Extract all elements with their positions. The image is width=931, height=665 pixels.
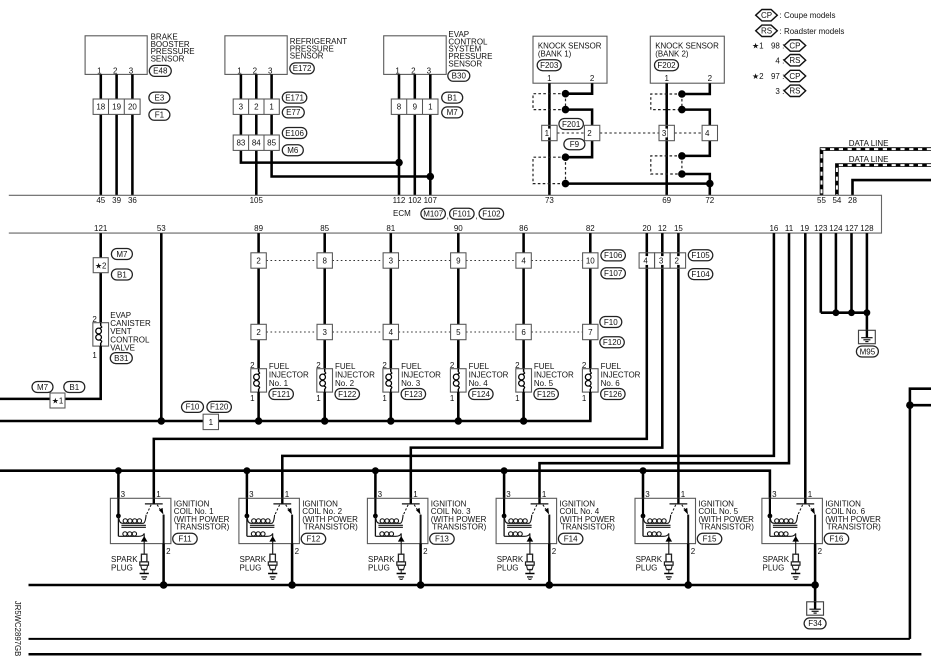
svg-text:2: 2 [450,361,455,370]
svg-text:E48: E48 [153,67,168,76]
connector E3/F1 pins 18 19 20 [93,92,170,120]
svg-text:2: 2 [582,361,587,370]
splice star2 box [93,249,132,281]
svg-text:SENSOR: SENSOR [290,52,324,61]
svg-text:54: 54 [832,196,841,205]
junction node ECM pin 72 wire [706,180,714,188]
svg-text:1: 1 [97,67,102,76]
svg-text:2: 2 [256,328,261,337]
svg-text:123: 123 [814,224,828,233]
svg-text:55: 55 [817,196,826,205]
svg-text:1: 1 [285,490,290,499]
shield box knock2 upper [651,94,682,110]
wire ECM pin 107 [429,74,432,195]
svg-text:No. 2: No. 2 [335,379,355,388]
junction coil 1 pin2 bus [160,581,168,589]
wire ECM pin 11 to ignition coil No.4 [540,233,790,504]
svg-text:1: 1 [547,74,552,83]
svg-text:1: 1 [209,418,214,427]
svg-text:F124: F124 [472,390,491,399]
svg-text:3: 3 [268,67,273,76]
svg-text:1: 1 [515,394,520,403]
svg-text:3: 3 [121,490,126,499]
svg-text:3: 3 [389,256,394,265]
svg-text:M107: M107 [423,210,444,219]
svg-text:124: 124 [829,224,843,233]
junction injector 2 bus [321,417,328,424]
svg-text:B30: B30 [452,72,467,81]
svg-text:E77: E77 [286,108,301,117]
svg-text:F15: F15 [703,535,717,544]
svg-text:CP: CP [789,41,800,50]
junction coil 1 bus [115,467,122,474]
legend star2 3 RS [775,85,805,96]
junction injector 3 bus [387,417,394,424]
svg-text:E106: E106 [285,129,304,138]
svg-text:69: 69 [662,196,671,205]
svg-text:RS: RS [789,87,800,96]
svg-text:2: 2 [256,256,261,265]
svg-text:★1: ★1 [52,397,63,406]
svg-text:15: 15 [674,224,683,233]
svg-text:F14: F14 [564,535,578,544]
connector E106/M6 pins 83 84 85 [233,128,307,156]
connector F201/F9 boxes 1 2 3 4 with twisted line [542,119,718,150]
svg-text:F125: F125 [537,390,556,399]
svg-text:82: 82 [586,224,595,233]
shield box knock1 lower [533,157,566,183]
connector B1/M7 pins 8 9 1 [391,92,462,118]
svg-text:TRANSISTOR): TRANSISTOR) [304,523,358,532]
svg-text:105: 105 [250,196,264,205]
svg-text:F13: F13 [435,535,449,544]
svg-text:F106: F106 [604,251,623,260]
svg-text:83: 83 [236,139,245,148]
wire coil 1 pin 3 [117,471,120,516]
ECM top pin numbers [96,196,857,205]
connector trio F105/F104 pins 4 3 2 [639,250,713,280]
wire bottom rail from right edge branch [29,638,910,640]
ignition coil No. 5 with power transistor F15 [635,490,696,556]
svg-text:45: 45 [96,196,105,205]
svg-text:JR5WC2897GB: JR5WC2897GB [13,601,22,656]
knock sensor bank 1 F203 [533,36,607,83]
wire ECM pin 90 to fuel injector No. 4 [457,233,460,369]
wire knock1 pin2 shield lower to ECM pin 72 line [566,141,710,184]
connector E171/E77 pins 3 2 1 [233,92,307,118]
svg-text:,: , [475,212,477,221]
svg-text:28: 28 [848,196,857,205]
svg-text:39: 39 [112,196,121,205]
wire coil 4 pin 3 [503,471,506,516]
svg-text:2: 2 [166,547,171,556]
wire ECM pin 82 to fuel injector No. 6 [589,233,592,369]
wire ECM pin 69 [665,83,668,195]
svg-text:1: 1 [92,351,97,360]
wire coil 5 pin 3 [642,471,645,516]
svg-text:2: 2 [295,547,300,556]
junction coil 5 pin2 bus [684,581,692,589]
svg-text:M7: M7 [116,250,128,259]
svg-text:CP: CP [761,11,772,20]
svg-text:★1: ★1 [752,42,764,51]
svg-text:F122: F122 [338,390,357,399]
svg-text:F102: F102 [482,210,501,219]
svg-text:9: 9 [413,103,418,112]
wire coil bus to ground F34 [814,585,817,602]
svg-text:36: 36 [128,196,137,205]
wire ECM pin 102 [414,74,417,195]
connector row F106/F107 [251,250,626,279]
svg-text:★2: ★2 [752,72,764,81]
svg-text:(BANK 2): (BANK 2) [655,50,689,59]
svg-text:2: 2 [552,547,557,556]
svg-text:B1: B1 [447,93,457,102]
svg-text:M7: M7 [37,383,49,392]
svg-text:3: 3 [129,67,134,76]
shield box knock2 lower [651,156,682,174]
svg-text:1: 1 [382,394,387,403]
junction ECM pin53/bus [158,417,165,424]
junction coil 4 pin2 bus [546,581,554,589]
wire ECM pin 112 [398,74,401,195]
wire ECM pin 45 [100,74,103,195]
svg-text:2: 2 [316,361,321,370]
svg-text:RS: RS [789,56,800,65]
svg-text:PLUG: PLUG [497,563,519,572]
svg-text:2: 2 [590,74,595,83]
ignition coil No. 2 with power transistor F12 [239,490,300,556]
spark plug 5 [636,554,674,579]
svg-text:B1: B1 [117,270,127,279]
wire valve to splice star1 and left edge [0,346,101,399]
ignition coil No. 6 with power transistor F16 [762,490,823,556]
svg-text:6: 6 [521,328,526,337]
svg-text:86: 86 [519,224,528,233]
svg-text:1: 1 [545,129,550,138]
svg-text:F120: F120 [210,403,229,412]
junction shield knock2 upper [678,90,686,113]
brake booster pressure sensor E48 [85,33,195,77]
data line 1 (ECM pin 55) [822,139,931,195]
svg-text:3: 3 [772,490,777,499]
wire coil 3 pin 3 [374,471,377,516]
svg-text:PLUG: PLUG [763,563,785,572]
junction coil 2 pin2 bus [288,581,296,589]
junction shield knock1 upper [562,90,570,114]
svg-text:3: 3 [645,490,650,499]
junction coil 3 bus [372,467,379,474]
ignition coil No. 1 with power transistor F11 [110,490,171,556]
junction coil 2 bus [243,467,250,474]
wire coil 2 pin 2 to spark bus [291,544,294,585]
svg-text:F201: F201 [562,120,581,129]
knock sensor bank 2 F202 [650,36,724,83]
wire ECM pin 36 [131,74,134,195]
svg-text:4: 4 [643,256,648,265]
ECM bottom pin numbers [94,224,874,233]
wire knock2 pin2 shield lower [682,141,710,196]
svg-text:F126: F126 [604,390,623,399]
svg-text:4: 4 [705,129,710,138]
junction coil 6 pin2 bus [811,581,819,589]
wire ECM pin 20 to ignition coil No.1 [154,233,647,504]
legend star1 98 CP [752,40,806,51]
junction injector 5 bus [520,417,527,424]
svg-text:85: 85 [267,139,276,148]
svg-text:1: 1 [156,490,161,499]
fuel injector No. 1 F121 [250,361,309,421]
svg-text:2: 2 [113,67,118,76]
svg-text:97 :: 97 : [771,72,784,81]
svg-text:2: 2 [253,67,258,76]
svg-text:No. 6: No. 6 [601,379,621,388]
svg-text:F11: F11 [178,535,192,544]
svg-text:PLUG: PLUG [636,563,658,572]
wire ECM pin 73 [548,83,551,195]
svg-text:12: 12 [658,224,667,233]
svg-text:2: 2 [708,74,713,83]
svg-text:No. 3: No. 3 [401,379,421,388]
svg-text:5: 5 [456,328,461,337]
svg-text:TRANSISTOR): TRANSISTOR) [700,523,754,532]
splice star1 box [32,382,85,409]
svg-text:53: 53 [157,224,166,233]
svg-text:1: 1 [450,394,455,403]
svg-text:3 :: 3 : [775,87,784,96]
EVAP canister vent control valve B31 solenoid [92,311,151,364]
svg-text:3: 3 [239,103,244,112]
svg-text:89: 89 [254,224,263,233]
wire ECM pin 85 to fuel injector No. 2 [323,233,326,369]
svg-text:1: 1 [808,490,813,499]
svg-text:8: 8 [397,103,402,112]
svg-text:(BANK 1): (BANK 1) [538,50,572,59]
wire ECM pin 12 to ignition coil No.3 [411,233,663,504]
svg-text:F34: F34 [808,619,822,628]
svg-text:F105: F105 [691,251,710,260]
svg-text:TRANSISTOR): TRANSISTOR) [561,523,615,532]
svg-text:20: 20 [642,224,651,233]
wire coil 1 pin 2 to spark bus [162,544,165,585]
svg-text:TRANSISTOR): TRANSISTOR) [432,523,486,532]
svg-text:19: 19 [112,103,121,112]
junction node pin107/refrigerant [427,173,435,181]
svg-text:F9: F9 [570,140,580,149]
svg-text:DATA LINE: DATA LINE [849,139,889,148]
fuel injector No. 6 F126 [582,361,641,421]
svg-text:F101: F101 [453,210,472,219]
svg-text:F10: F10 [604,318,618,327]
junction injector 4 bus [455,417,462,424]
wire ECM pin 16 to ignition coil No.2 [282,233,774,504]
svg-text:18: 18 [96,103,105,112]
svg-text:73: 73 [545,196,554,205]
ignition coil No. 3 with power transistor F13 [367,490,428,556]
wire bottom rail 2 [29,653,922,656]
svg-text:F121: F121 [272,390,291,399]
spark plug 1 [111,554,149,579]
wire ECM pin 19 to ignition coil No.6 [804,233,807,504]
svg-text:F202: F202 [657,61,676,70]
junction grounds [833,309,871,316]
junction right edge [906,401,914,409]
svg-text:20: 20 [128,103,137,112]
wire coil 2 pin 3 [246,471,249,516]
spark/coil ground bus wire [29,584,816,587]
svg-text:B31: B31 [114,354,129,363]
svg-text:81: 81 [386,224,395,233]
svg-text:PLUG: PLUG [368,563,390,572]
svg-text:4 :: 4 : [775,56,784,65]
svg-text:F16: F16 [830,535,844,544]
ECM [9,195,882,233]
injector supply bus wire [0,392,590,421]
svg-text:9: 9 [456,256,461,265]
svg-text:No. 4: No. 4 [469,379,489,388]
wire ECM pin 39 [115,74,118,195]
svg-text:F12: F12 [307,535,321,544]
svg-text:F1: F1 [155,111,165,120]
fuel injector No. 5 F125 [515,361,574,421]
svg-text:TRANSISTOR): TRANSISTOR) [175,523,229,532]
svg-text:No. 1: No. 1 [269,379,289,388]
junction coil 3 pin2 bus [417,581,425,589]
EVAP control system pressure sensor B30 [384,30,493,81]
svg-text:1: 1 [582,394,587,403]
junction shield knock2 lower [678,152,686,178]
junction coil 4 bus [501,467,508,474]
svg-text:4: 4 [521,256,526,265]
svg-text:1: 1 [681,490,686,499]
spark plug 6 [763,554,801,579]
svg-text:1: 1 [428,103,433,112]
svg-text:1: 1 [237,67,242,76]
svg-text:CP: CP [789,72,800,81]
wire ECM pin 28 [853,180,931,195]
wires ECM pins 123 124 127 128 to ground M95 [821,233,867,330]
junction coil 5 bus [640,467,647,474]
wire coil 6 pin 2 to spark bus [814,544,817,585]
svg-text:1: 1 [395,67,400,76]
legend star1 4 RS [775,55,805,66]
drawing code JR5WC2897GB [13,601,22,656]
spark plug 3 [368,554,406,579]
svg-text:No. 5: No. 5 [534,379,554,388]
svg-text:M6: M6 [287,146,299,155]
svg-text:M95: M95 [860,347,876,356]
svg-text:E172: E172 [293,64,312,73]
svg-text:2: 2 [691,547,696,556]
svg-text:F104: F104 [691,270,710,279]
svg-text:1: 1 [269,103,274,112]
svg-text:: Coupe models: : Coupe models [780,11,836,20]
svg-text:: Roadster models: : Roadster models [780,27,845,36]
svg-text:RS: RS [761,27,772,36]
svg-text:19: 19 [800,224,809,233]
svg-text:2: 2 [250,361,255,370]
svg-text:98 :: 98 : [771,42,784,51]
svg-text:2: 2 [515,361,520,370]
svg-text:F123: F123 [404,390,423,399]
wire coil 5 pin 2 to spark bus [687,544,690,585]
ground F34 [804,602,826,629]
wire right edge branch upper [910,389,931,639]
ground M95 [856,330,878,357]
svg-text:102: 102 [408,196,422,205]
svg-text:3: 3 [378,490,383,499]
svg-text:E171: E171 [285,93,304,102]
svg-text:F10: F10 [186,403,200,412]
svg-text:2: 2 [818,547,823,556]
shield box knock1 upper [533,94,566,110]
svg-text:2: 2 [254,103,259,112]
svg-text:2: 2 [423,547,428,556]
wire ECM pin 89 to fuel injector No. 1 [257,233,260,369]
wire refrigerant pin 1 to EVAP sensor pin 112 node [241,74,399,162]
svg-text:2: 2 [382,361,387,370]
legend star2 97 CP [752,70,806,81]
svg-text:PLUG: PLUG [240,563,262,572]
svg-text:127: 127 [845,224,859,233]
svg-text:DATA LINE: DATA LINE [849,155,889,164]
wire coil 3 pin 2 to spark bus [419,544,422,585]
wire ECM pin 121 to EVAP canister vent control valve [99,233,102,323]
wire ECM pin 15 to ignition coil No.5 [677,233,680,504]
svg-text:2: 2 [411,67,416,76]
svg-text:1: 1 [316,394,321,403]
svg-text:121: 121 [94,224,108,233]
svg-text:11: 11 [785,224,794,233]
fuel injector No. 4 F124 [450,361,509,421]
svg-text:3: 3 [662,129,667,138]
wire knock1 pin2 shield upper [566,83,593,125]
svg-text:16: 16 [769,224,778,233]
svg-text:4: 4 [389,328,394,337]
fuel injector No. 2 F122 [316,361,375,421]
spark plug 2 [240,554,278,579]
svg-text:1: 1 [413,490,418,499]
svg-text:3: 3 [249,490,254,499]
svg-text:SENSOR: SENSOR [151,55,185,64]
connector 1 F10/F120 on bus [182,401,232,429]
wire coil 4 pin 2 to spark bus [548,544,551,585]
svg-text:1: 1 [664,74,669,83]
svg-text:72: 72 [705,196,714,205]
svg-text:E3: E3 [155,93,165,102]
svg-text:8: 8 [322,256,327,265]
svg-text:ECM: ECM [393,209,411,218]
ignition coil supply bus wire [0,471,770,516]
svg-text:3: 3 [427,67,432,76]
wire ECM pin 86 to fuel injector No. 5 [522,233,525,369]
svg-text:SENSOR: SENSOR [448,59,482,68]
data line 2 (ECM pin 54) [837,155,931,195]
svg-text:PLUG: PLUG [111,563,133,572]
wire ECM pin 105 [255,74,258,195]
junction injector 1 bus [255,417,262,424]
svg-text:107: 107 [424,196,438,205]
svg-text:112: 112 [393,196,406,205]
ignition coil No. 4 with power transistor F14 [496,490,557,556]
svg-text:2: 2 [674,256,679,265]
svg-text:★2: ★2 [95,261,106,270]
svg-text:1: 1 [250,394,255,403]
legend RS roadster models [756,25,845,36]
svg-text:F120: F120 [603,338,622,347]
wire right edge branch lower [910,404,931,407]
svg-text:B1: B1 [69,383,79,392]
